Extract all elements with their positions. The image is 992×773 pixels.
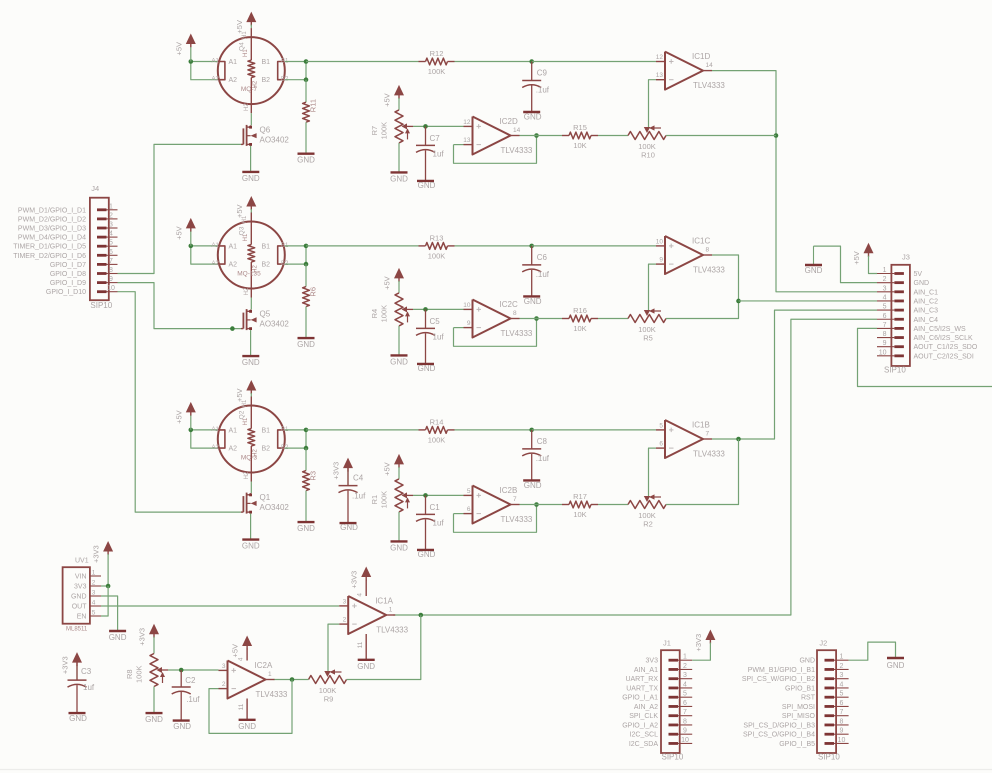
svg-text:TLV4333: TLV4333 <box>256 690 288 699</box>
svg-text:PWM_D4/GPIO_I_D4: PWM_D4/GPIO_I_D4 <box>18 235 86 242</box>
svg-text:GND: GND <box>914 280 930 287</box>
wire IC1C output down to R5 net <box>666 255 741 319</box>
supply +5V arrow sensor heater row3 <box>235 380 256 402</box>
svg-text:+5V: +5V <box>174 42 183 56</box>
wire cap junction to op-amp row2 <box>532 245 656 247</box>
svg-text:5: 5 <box>109 240 113 247</box>
svg-text:3: 3 <box>222 663 226 670</box>
transistor Q5 AO3402 <box>241 309 289 330</box>
svg-text:7: 7 <box>840 709 844 716</box>
svg-text:H1: H1 <box>242 399 248 407</box>
wire source to ground row1 <box>250 146 252 172</box>
ground R3 <box>297 522 315 533</box>
svg-text:I2C_SCL: I2C_SCL <box>630 732 659 739</box>
svg-text:PWM_D3/GPIO_I_D3: PWM_D3/GPIO_I_D3 <box>18 226 86 233</box>
wire IC2D feedback loop row1 <box>454 133 539 163</box>
wire R17 to R2 row3 <box>598 504 628 506</box>
svg-text:GND: GND <box>524 481 542 490</box>
svg-text:1: 1 <box>883 267 887 274</box>
svg-text:100K: 100K <box>428 435 446 444</box>
svg-text:AO3402: AO3402 <box>260 503 290 512</box>
ground R4 <box>390 355 408 366</box>
svg-text:11: 11 <box>357 641 364 648</box>
bottom window edge <box>0 769 992 771</box>
svg-text:SPI_CS_W/GPIO_I_B2: SPI_CS_W/GPIO_I_B2 <box>742 676 815 683</box>
supply +5V arrow left row2 <box>174 218 196 246</box>
svg-text:+3V3: +3V3 <box>332 462 341 480</box>
wire IC1B feedback to wiper row3 <box>649 448 657 497</box>
svg-text:3: 3 <box>840 672 844 679</box>
wire R10 to IC1D output net <box>666 135 776 137</box>
svg-text:10: 10 <box>107 285 115 292</box>
svg-text:9: 9 <box>467 320 471 327</box>
svg-text:SIP10: SIP10 <box>884 366 906 375</box>
svg-text:RST: RST <box>801 695 816 702</box>
svg-text:+5V: +5V <box>852 251 861 265</box>
svg-text:GND: GND <box>69 714 87 723</box>
svg-text:2: 2 <box>883 276 887 283</box>
supply +3V3 arrow IC1A <box>350 567 372 597</box>
svg-text:SIP10: SIP10 <box>818 753 840 762</box>
svg-text:.1uf: .1uf <box>186 695 200 704</box>
wire J3 pin2 to ground <box>814 246 878 283</box>
svg-text:GND: GND <box>238 722 256 731</box>
transistor Q1 AO3402 <box>241 493 289 514</box>
svg-text:IC2D: IC2D <box>500 117 518 126</box>
svg-text:.1uf: .1uf <box>536 270 550 279</box>
svg-text:AIN_C1: AIN_C1 <box>914 289 939 296</box>
wire R9 to IC1A output <box>347 615 421 680</box>
wire R14 to cap junction row3 <box>455 428 535 433</box>
svg-text:SPI_MOSI: SPI_MOSI <box>782 704 815 711</box>
svg-text:C3: C3 <box>81 667 92 676</box>
svg-text:GND: GND <box>297 156 315 165</box>
trimmer R1 100K <box>370 479 413 512</box>
trimmer R2 100K <box>628 494 666 528</box>
svg-text:H2: H2 <box>244 287 250 295</box>
svg-text:PWM_B1/GPIO_I_B1: PWM_B1/GPIO_I_B1 <box>748 667 815 674</box>
svg-text:Q1: Q1 <box>260 493 271 502</box>
svg-text:4: 4 <box>840 681 844 688</box>
svg-text:R4: R4 <box>370 309 379 319</box>
capacitor C1 1uf <box>416 495 444 559</box>
trimmer R8 100K <box>125 654 168 687</box>
svg-text:AIN_C2: AIN_C2 <box>914 298 939 305</box>
wire IC1A pin11 to ground <box>357 634 366 660</box>
svg-text:VIN: VIN <box>75 574 87 581</box>
svg-text:IC1D: IC1D <box>692 52 710 61</box>
svg-text:GND: GND <box>357 662 375 671</box>
supply +3V3 arrow U1 <box>92 541 114 586</box>
wire +5V to sensor A pins row3 <box>189 428 218 449</box>
svg-text:10K: 10K <box>573 324 586 333</box>
trimmer R9 100K <box>309 669 347 703</box>
svg-text:UART_TX: UART_TX <box>626 685 658 692</box>
svg-text:R5: R5 <box>643 334 653 343</box>
supply +5V arrow R1 <box>383 454 405 479</box>
svg-text:A2: A2 <box>212 261 220 267</box>
svg-text:5: 5 <box>467 488 471 495</box>
wire junction to load resistor row1 <box>305 80 307 103</box>
svg-text:C8: C8 <box>537 437 548 446</box>
wire sensor B pins to junction row1 <box>285 59 309 82</box>
svg-text:AIN_C5/I2S_WS: AIN_C5/I2S_WS <box>914 326 966 333</box>
supply +5V arrow left row3 <box>174 402 196 430</box>
svg-text:10: 10 <box>463 302 471 309</box>
resistor R6 <box>303 287 318 307</box>
supply +3V3 arrow C4 <box>332 458 354 480</box>
svg-text:A1: A1 <box>212 427 220 433</box>
svg-text:3V3: 3V3 <box>646 658 659 665</box>
resistor R17 10K <box>562 492 598 519</box>
svg-text:R9: R9 <box>324 695 334 704</box>
svg-text:7: 7 <box>706 431 710 438</box>
svg-text:8: 8 <box>840 718 844 725</box>
svg-text:H1: H1 <box>243 417 249 425</box>
svg-text:H1: H1 <box>242 31 248 39</box>
wire B1 net to R13 row2 <box>306 245 419 247</box>
svg-text:GPIO_I_B5: GPIO_I_B5 <box>779 741 815 748</box>
svg-text:10: 10 <box>656 239 664 246</box>
wire IC1A feedback to R9 wiper <box>328 624 339 671</box>
supply +5V arrow IC2A <box>231 636 253 662</box>
wire IC2C feedback loop row2 <box>454 316 539 346</box>
svg-text:8: 8 <box>883 331 887 338</box>
svg-text:SPI_CS_D/GPIO_I_B3: SPI_CS_D/GPIO_I_B3 <box>743 722 815 729</box>
capacitor C8 .1uf <box>522 430 550 490</box>
svg-text:A1: A1 <box>229 59 238 66</box>
svg-text:4: 4 <box>683 681 687 688</box>
svg-text:8: 8 <box>513 310 517 317</box>
svg-text:I2C_SDA: I2C_SDA <box>629 741 659 748</box>
ground IC1A <box>357 660 375 671</box>
supply +5V arrow sensor heater row1 <box>235 12 256 34</box>
svg-text:1: 1 <box>840 654 844 661</box>
svg-text:10: 10 <box>838 737 846 744</box>
svg-text:AIN_C3: AIN_C3 <box>914 308 939 315</box>
svg-text:TLV4333: TLV4333 <box>501 146 533 155</box>
svg-text:B1: B1 <box>262 427 271 434</box>
svg-text:TLV4333: TLV4333 <box>376 626 408 635</box>
wire IC2D output to R15 row1 <box>520 135 563 137</box>
svg-text:B1: B1 <box>262 243 271 250</box>
svg-text:12: 12 <box>656 54 664 61</box>
wire sensor B pins to junction row3 <box>285 428 309 451</box>
svg-text:AOUT_C2/I2S_SDI: AOUT_C2/I2S_SDI <box>914 353 974 360</box>
svg-text:C1: C1 <box>430 503 441 512</box>
wire IC1B output net AIN_C3 <box>712 310 877 441</box>
svg-text:1: 1 <box>92 570 96 577</box>
svg-text:+5V: +5V <box>383 462 392 476</box>
resistor R12 100K <box>419 49 455 76</box>
svg-text:5: 5 <box>92 610 96 617</box>
op-amp IC2D TLV4333 <box>463 117 533 156</box>
resistor R14 100K <box>419 417 455 444</box>
svg-text:5: 5 <box>683 691 687 698</box>
svg-text:+5V: +5V <box>174 226 183 240</box>
wire IC2B output to R17 row3 <box>520 504 563 506</box>
ground J2 <box>887 658 905 670</box>
svg-text:8: 8 <box>706 247 710 254</box>
op-amp IC2A TLV4333 <box>219 661 288 700</box>
svg-text:2: 2 <box>92 580 96 587</box>
resistor R11 <box>303 99 318 122</box>
op-amp IC2B TLV4333 <box>464 486 533 525</box>
svg-text:R17: R17 <box>573 492 587 501</box>
svg-text:100K: 100K <box>428 251 446 260</box>
svg-text:+5V: +5V <box>174 410 183 424</box>
svg-text:.1uf: .1uf <box>352 492 366 501</box>
resistor R13 100K <box>419 233 455 260</box>
svg-text:R1: R1 <box>370 495 379 505</box>
connector J2 SIP10 <box>742 639 849 762</box>
svg-text:+5V: +5V <box>383 93 392 107</box>
wire IC2A output to R9 <box>274 677 309 682</box>
ground R6 <box>297 338 315 349</box>
svg-text:H2: H2 <box>253 265 259 273</box>
wire R12 to cap junction row1 <box>455 59 535 64</box>
svg-text:+3V3: +3V3 <box>138 628 147 646</box>
svg-text:4: 4 <box>357 593 364 597</box>
wire R1 to ground row3 <box>398 512 400 542</box>
svg-text:6: 6 <box>659 441 663 448</box>
svg-text:J3: J3 <box>902 253 910 262</box>
svg-text:10K: 10K <box>573 510 586 519</box>
svg-text:4: 4 <box>883 294 887 301</box>
svg-text:100K: 100K <box>380 122 389 140</box>
trimmer R10 100K <box>628 125 666 159</box>
svg-text:.1uf: .1uf <box>536 454 550 463</box>
ground IC2A <box>238 720 256 731</box>
supply +5V arrow sensor heater row2 <box>235 196 256 218</box>
ground symbol J3 <box>805 246 823 275</box>
wire sensor heater to transistor row3 <box>250 482 252 494</box>
svg-text:AO3402: AO3402 <box>260 135 290 144</box>
svg-text:GPIO_I_A1: GPIO_I_A1 <box>622 695 658 702</box>
wire IC2A feedback loop <box>209 680 292 734</box>
svg-text:GND: GND <box>71 594 87 601</box>
trimmer R7 100K <box>370 110 413 143</box>
svg-text:12: 12 <box>463 119 471 126</box>
wire source to ground row2 <box>250 330 252 356</box>
supply +3V3 arrow C3 <box>61 652 83 674</box>
svg-text:SPI_CLK: SPI_CLK <box>629 713 658 720</box>
ground Q6 <box>242 172 260 183</box>
svg-text:GND: GND <box>887 661 905 670</box>
wire B1 net to R14 row3 <box>306 429 419 431</box>
svg-text:J2: J2 <box>819 639 827 648</box>
wire B1 net to R12 row1 <box>306 61 419 63</box>
resistor R15 10K <box>562 123 598 150</box>
svg-text:+3V3: +3V3 <box>61 656 70 674</box>
voltage regulator U1 ML8511 <box>63 558 101 633</box>
wire IC1D output to J3 pin3 net AIN_C1 <box>712 71 877 292</box>
svg-text:AO3402: AO3402 <box>260 320 290 329</box>
svg-text:IC1C: IC1C <box>692 237 710 246</box>
ground R8 <box>145 713 163 724</box>
wire R4 to ground row2 <box>398 326 400 356</box>
svg-text:+5V: +5V <box>231 644 240 658</box>
svg-text:H2: H2 <box>244 471 250 479</box>
svg-text:R6: R6 <box>309 287 318 297</box>
wire R16 to R5 row2 <box>598 318 628 320</box>
svg-text:A1: A1 <box>229 243 238 250</box>
svg-text:2: 2 <box>840 663 844 670</box>
svg-text:IC2C: IC2C <box>500 300 518 309</box>
wire IC2C output to R16 row2 <box>520 318 563 320</box>
svg-text:7: 7 <box>109 258 113 265</box>
svg-text:7: 7 <box>513 496 517 503</box>
svg-text:H2: H2 <box>244 103 250 111</box>
wire U1 EN tied to 3V3 <box>101 586 108 616</box>
svg-text:OUT: OUT <box>72 604 88 611</box>
wire R2 to IC1B output <box>666 439 739 505</box>
svg-text:GND: GND <box>242 358 260 367</box>
wire R8 to ground <box>153 687 155 714</box>
supply +5V arrow R4 <box>383 268 405 293</box>
wire R8 wiper to IC2A input <box>168 668 219 673</box>
svg-text:100K: 100K <box>135 665 144 683</box>
svg-text:AIN_A1: AIN_A1 <box>634 667 658 674</box>
svg-text:GND: GND <box>390 174 408 183</box>
svg-text:6: 6 <box>467 506 471 513</box>
svg-text:GND: GND <box>805 266 823 275</box>
svg-text:C6: C6 <box>537 253 548 262</box>
wire junction to load resistor row2 <box>305 264 307 287</box>
ground Q1 <box>242 540 260 551</box>
op-amp IC1A TLV4333 <box>339 596 408 635</box>
ground R7 <box>390 172 408 183</box>
wire R7 to ground row1 <box>398 143 400 173</box>
svg-text:3V3: 3V3 <box>74 584 87 591</box>
svg-text:TIMER_D2/GPIO_I_D6: TIMER_D2/GPIO_I_D6 <box>13 253 86 260</box>
svg-text:B2: B2 <box>262 77 271 84</box>
svg-text:6: 6 <box>840 700 844 707</box>
svg-text:C2: C2 <box>185 676 196 685</box>
svg-text:1uf: 1uf <box>433 332 445 341</box>
gas sensor Q2 MQ-3 <box>212 397 290 482</box>
wire R3 to ground row3 <box>305 491 307 522</box>
svg-text:6: 6 <box>883 313 887 320</box>
svg-text:3: 3 <box>109 222 113 229</box>
ground R1 <box>390 541 408 552</box>
svg-text:R8: R8 <box>125 669 134 679</box>
svg-text:UV1: UV1 <box>75 558 89 565</box>
ground R11 <box>297 154 315 165</box>
transistor Q6 AO3402 <box>241 125 289 146</box>
svg-text:1uf: 1uf <box>83 683 95 692</box>
wire J4 pin10 to Q1 gate <box>118 292 242 512</box>
wire +5V to sensor A pins row1 <box>189 59 218 79</box>
svg-text:GND: GND <box>524 297 542 306</box>
svg-text:100K: 100K <box>380 305 389 323</box>
svg-text:5: 5 <box>883 304 887 311</box>
svg-text:A1: A1 <box>229 427 238 434</box>
svg-text:1: 1 <box>683 654 687 661</box>
wire U1 3V3 pin to supply <box>101 584 110 589</box>
svg-text:GND: GND <box>390 357 408 366</box>
wire wiper to IC2D row1 <box>413 124 464 129</box>
svg-text:GND: GND <box>524 113 542 122</box>
svg-text:7: 7 <box>883 322 887 329</box>
svg-text:R10: R10 <box>641 151 655 160</box>
connector J4 SIP10 <box>13 184 117 310</box>
svg-text:3: 3 <box>92 590 96 597</box>
svg-text:SPI_MISO: SPI_MISO <box>782 713 816 720</box>
svg-text:9: 9 <box>683 728 687 735</box>
svg-text:8: 8 <box>683 718 687 725</box>
svg-text:2: 2 <box>683 663 687 670</box>
svg-text:+3V3: +3V3 <box>694 634 703 652</box>
ground Q5 <box>242 356 260 367</box>
svg-text:IC1A: IC1A <box>375 597 393 606</box>
svg-text:R12: R12 <box>430 49 444 58</box>
svg-text:A2: A2 <box>229 77 238 84</box>
capacitor C6 .1uf <box>522 246 550 306</box>
svg-text:1uf: 1uf <box>433 518 445 527</box>
svg-text:13: 13 <box>463 137 471 144</box>
resistor R16 10K <box>562 306 598 333</box>
wire J3 pin7 net I2S_WS to edge <box>858 328 992 386</box>
connector J3 SIP10 <box>877 253 978 375</box>
svg-text:R3: R3 <box>309 471 318 481</box>
svg-text:GPIO_I_D7: GPIO_I_D7 <box>50 262 86 269</box>
svg-text:A1: A1 <box>212 243 220 249</box>
svg-text:4: 4 <box>238 657 245 661</box>
svg-text:GND: GND <box>418 550 436 559</box>
wire IC1A output to J3 pin6 net AIN_C4 <box>393 319 877 617</box>
svg-text:3: 3 <box>343 599 347 606</box>
wire R11 to ground row1 <box>305 122 307 154</box>
svg-text:SPI_CS_O/GPIO_I_B4: SPI_CS_O/GPIO_I_B4 <box>743 732 815 739</box>
capacitor C3 1uf <box>68 661 95 723</box>
svg-text:Q6: Q6 <box>260 125 271 134</box>
svg-text:GND: GND <box>418 364 436 373</box>
wire +5V to sensor A pins row2 <box>189 244 218 265</box>
svg-text:4: 4 <box>92 600 96 607</box>
svg-text:J4: J4 <box>91 184 99 193</box>
gas sensor Q3 MQ-135 <box>212 213 290 298</box>
wire sensor heater to transistor row1 <box>250 113 252 125</box>
wire R15 to R10 row1 <box>598 135 628 137</box>
svg-text:H1: H1 <box>242 215 248 223</box>
svg-text:IC2B: IC2B <box>500 486 518 495</box>
svg-text:GND: GND <box>799 658 815 665</box>
capacitor C7 1uf <box>416 126 444 189</box>
svg-text:GND: GND <box>173 722 191 731</box>
svg-text:H1: H1 <box>243 49 249 57</box>
svg-text:1: 1 <box>109 203 113 210</box>
svg-text:IC1B: IC1B <box>692 421 710 430</box>
svg-text:.1uf: .1uf <box>536 86 550 95</box>
svg-text:GND: GND <box>145 715 163 724</box>
wire wiper to IC2C row2 <box>413 307 464 312</box>
svg-text:R14: R14 <box>430 417 444 426</box>
svg-text:PWM_D2/GPIO_I_D2: PWM_D2/GPIO_I_D2 <box>18 216 86 223</box>
svg-text:C5: C5 <box>430 317 441 326</box>
svg-text:TLV4333: TLV4333 <box>693 81 725 90</box>
wire IC1C feedback to wiper row2 <box>649 264 657 311</box>
resistor R3 <box>303 471 318 491</box>
capacitor C4 .1uf <box>339 467 367 532</box>
wire J4 pin9 to Q5 gate <box>118 283 242 331</box>
wire IC2B feedback loop row3 <box>454 502 539 532</box>
capacitor C9 .1uf <box>522 62 550 122</box>
wire R13 to cap junction row2 <box>455 244 535 249</box>
wire J2 pin1 to ground <box>849 642 896 660</box>
svg-text:R11: R11 <box>309 99 318 112</box>
svg-text:GPIO_I_A2: GPIO_I_A2 <box>622 722 658 729</box>
